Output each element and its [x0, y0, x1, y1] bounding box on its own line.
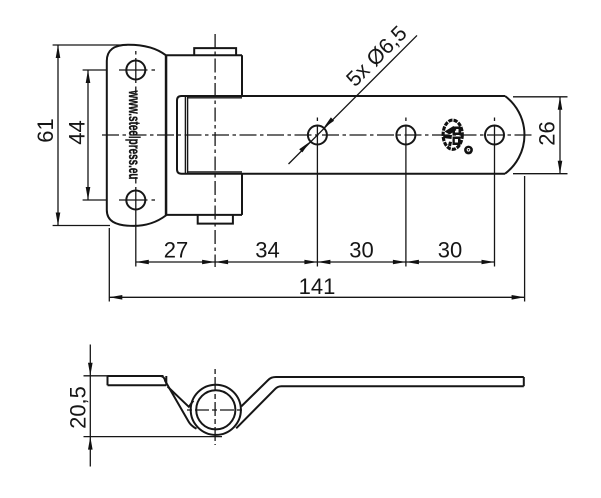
extension line 141 right [524, 176, 526, 302]
svg-text:141: 141 [299, 274, 336, 299]
dim 26 extension lines [513, 96, 568, 98]
main horizontal center line [102, 134, 533, 136]
left strip of side view [108, 376, 167, 385]
right strip end cap [523, 377, 525, 386]
strap fold edge double line inside knuckle [185, 96, 242, 174]
plate brand text www.steelpress.eu [125, 90, 142, 180]
dim 61 line [56, 45, 61, 226]
svg-text:5x Ø6,5: 5x Ø6,5 [342, 21, 412, 91]
plate hole bottom [119, 177, 155, 212]
strap hole 1 [308, 118, 327, 145]
strap hole 2 [396, 118, 415, 145]
mounting plate outline [107, 45, 166, 226]
extension line strap hole1 to dim [316, 125, 318, 267]
svg-text:44: 44 [65, 120, 90, 144]
svg-text:26: 26 [535, 121, 560, 145]
extension line strap hole3 to dim [494, 125, 496, 267]
hinge pin cap top [194, 48, 236, 55]
extension line 141 left [108, 228, 110, 302]
logo registered mark dot [464, 146, 473, 155]
dim 20,5 line with outside arrows [88, 345, 93, 467]
dim 141 line [109, 295, 524, 300]
svg-text:20,5: 20,5 [66, 386, 91, 429]
dim 61 extension lines [53, 44, 127, 46]
svg-text:30: 30 [349, 238, 373, 263]
strap (long leaf) outline with rounded right end [177, 96, 524, 174]
left bend inner surface with end cap [168, 387, 194, 407]
hinge pin cap bottom [198, 215, 233, 224]
right bend outer surface [241, 377, 524, 406]
dim 20,5 extension lines [84, 375, 108, 377]
strap hole 3 [485, 118, 504, 145]
extension line plate hole to dim [135, 212, 137, 267]
dim 44 line [86, 70, 91, 200]
barrel outer circle [191, 385, 241, 435]
dim 44 extension lines [83, 69, 108, 71]
extension line strap hole2 to dim [405, 125, 407, 267]
barrel center cross lines [187, 369, 244, 445]
plate hole top [119, 51, 155, 93]
svg-text:27: 27 [164, 238, 188, 263]
left bend outer surface [161, 376, 197, 429]
dim 26 line [558, 97, 563, 174]
hinge knuckle body [166, 55, 242, 215]
right bend inner surface [236, 386, 524, 428]
stamped logo oval on strap [443, 120, 462, 149]
barrel inner circle (pin hole) [196, 390, 235, 429]
svg-text:34: 34 [255, 238, 279, 263]
chained dim line 27/34/30/30 [136, 260, 495, 265]
hole diameter leader line 5x6.5 [289, 35, 418, 164]
hinge axis vertical center line [214, 34, 216, 267]
svg-text:61: 61 [33, 118, 58, 142]
svg-text:30: 30 [438, 238, 462, 263]
